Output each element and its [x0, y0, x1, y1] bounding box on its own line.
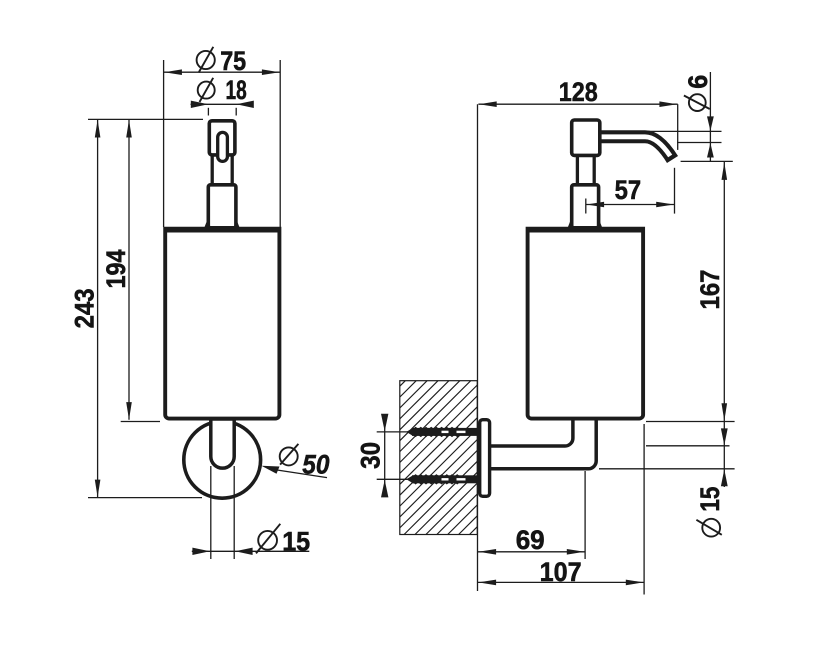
- dimension O15 side line with outside arrows: [723, 422, 725, 488]
- svg-text:75: 75: [220, 46, 246, 76]
- dimension O15 side label rotated: [702, 519, 720, 537]
- dimension 30 line with outside arrows: [384, 414, 386, 496]
- dimension O18 label: [198, 82, 215, 99]
- dimension 69 line: [478, 551, 585, 553]
- pump neck front: [211, 155, 214, 185]
- svg-text:107: 107: [540, 557, 582, 587]
- dimension 107 extension right: [643, 424, 645, 595]
- svg-text:18: 18: [226, 75, 247, 105]
- pump collar front: [208, 185, 236, 228]
- svg-text:6: 6: [683, 75, 713, 89]
- dimension O15 front line with outside arrows: [192, 550, 309, 552]
- dimension 57 extension tick: [585, 199, 587, 214]
- dimension 57 extension right: [674, 168, 676, 214]
- screw bottom: [406, 474, 478, 484]
- dimension 243 line: [97, 120, 99, 497]
- dimension 167 line: [723, 162, 725, 421]
- dimension 167 extension bottom: [646, 421, 735, 423]
- spout side: [601, 137, 673, 160]
- wall plate side: [480, 420, 490, 497]
- dimension O6 extension lines: [648, 130, 722, 132]
- wall section hatched: [400, 381, 478, 535]
- dimension O18 line with outside arrows: [191, 103, 254, 105]
- dimension 128 line: [478, 103, 677, 105]
- svg-text:167: 167: [695, 270, 725, 310]
- dimension 167 extension top: [681, 160, 733, 162]
- bracket elbow U front: [211, 419, 234, 468]
- dimension 243 extension line top: [88, 118, 203, 120]
- dimension O18 extension ticks: [207, 108, 209, 116]
- bottle body front: [165, 229, 279, 419]
- dimension 30 extension lines: [377, 431, 408, 433]
- svg-text:30: 30: [356, 442, 386, 469]
- wall hatch lines: [400, 381, 478, 535]
- svg-text:50: 50: [302, 449, 329, 479]
- dimension 69 extension right: [584, 471, 586, 559]
- dimension O15 front label: [258, 531, 277, 550]
- bracket arm bottom + riser right: [491, 420, 596, 469]
- dimension 194 line: [128, 120, 130, 420]
- collar flare side: [569, 222, 572, 228]
- dimension 107 line: [478, 581, 644, 583]
- svg-text:69: 69: [516, 525, 545, 555]
- svg-text:57: 57: [615, 175, 642, 205]
- wall face line: [477, 104, 479, 591]
- label O50 with leader: [261, 466, 279, 474]
- svg-text:15: 15: [695, 487, 725, 512]
- dimension O6 line with outside arrows: [709, 72, 711, 161]
- screw top: [406, 427, 478, 437]
- collar flare front: [205, 222, 208, 228]
- pump head side: [572, 120, 600, 155]
- bracket arm top + riser left: [491, 420, 573, 447]
- svg-text:194: 194: [101, 250, 131, 289]
- dimension 128 extension right: [677, 104, 679, 150]
- dimension O75 line: [164, 71, 281, 73]
- svg-text:128: 128: [559, 77, 598, 107]
- dimension 194 extension line bottom: [121, 421, 160, 423]
- pump head front: [209, 121, 235, 155]
- dimension O6 label rotated: [689, 94, 706, 111]
- pump collar side: [572, 185, 599, 228]
- dimension 57 line: [586, 204, 675, 206]
- svg-text:15: 15: [282, 527, 310, 557]
- dimension 243 extension line bottom: [88, 497, 202, 499]
- pump plunger slot front: [218, 132, 228, 161]
- svg-text:243: 243: [70, 288, 100, 328]
- dimension O15 front extension lines: [210, 466, 212, 559]
- dimension O75 extension lines: [163, 60, 165, 227]
- bottle body side: [528, 229, 644, 419]
- pump neck side: [576, 155, 579, 185]
- dimension O15 side extension lines: [646, 445, 730, 447]
- mounting flange circle O50 front: [184, 421, 261, 498]
- dimension O75 label: [197, 51, 215, 69]
